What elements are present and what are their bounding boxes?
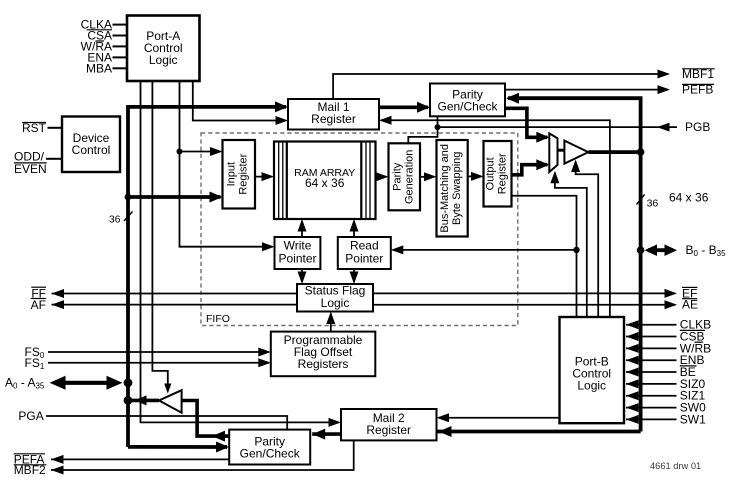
- svg-text:Pointer: Pointer: [278, 251, 316, 265]
- FIFO dashed boundary: [201, 133, 518, 326]
- svg-text:Logic: Logic: [149, 53, 178, 67]
- wire FS0 input: [48, 351, 269, 353]
- wire port-A ctl to mail1 register: [193, 81, 286, 121]
- port-B control logic box: [560, 317, 625, 423]
- wire to read pointer: [393, 249, 577, 251]
- svg-text:36: 36: [109, 214, 121, 226]
- wire mux to buffer: [558, 149, 565, 152]
- device control box: [62, 117, 120, 173]
- wire parity gen/check B to output mux: [505, 108, 547, 137]
- wire PGA input: [46, 416, 287, 430]
- read pointer box: [338, 237, 391, 269]
- wire BE input: [626, 371, 677, 373]
- wire AF output: [52, 304, 298, 306]
- parity generation box: [389, 143, 421, 210]
- output register box: [484, 141, 512, 207]
- wire mux enable from port-B: [555, 173, 587, 317]
- wire MBA stub: [113, 67, 128, 69]
- svg-text:64 x 36: 64 x 36: [305, 176, 345, 190]
- wire SIZ1 input: [626, 395, 677, 397]
- wire parity generation to bus-matching: [420, 176, 435, 178]
- svg-text:Gen/Check: Gen/Check: [240, 447, 301, 461]
- wire EF output: [373, 292, 675, 294]
- wire W/RA stub: [113, 45, 128, 47]
- svg-text:EVEN: EVEN: [14, 162, 47, 176]
- svg-text:Register: Register: [497, 153, 509, 194]
- svg-text:AE: AE: [682, 298, 698, 312]
- svg-text:MBA: MBA: [86, 61, 112, 75]
- wire FF output: [52, 293, 298, 295]
- RAM array inner lines: [278, 142, 280, 220]
- junction B bus / B0-B35: [637, 246, 645, 254]
- svg-text:Gen/Check: Gen/Check: [437, 100, 498, 114]
- wire PEFB output: [505, 89, 668, 91]
- svg-text:Control: Control: [72, 143, 111, 157]
- svg-text:36: 36: [647, 198, 659, 210]
- wire A0 - A35 bidirectional: [55, 381, 117, 385]
- svg-text:Pointer: Pointer: [345, 251, 383, 265]
- status flag logic box: [297, 284, 373, 312]
- junction A bus / input register: [125, 194, 132, 201]
- wire CLKA stub: [113, 24, 128, 26]
- bus-matching byte swapping box: [437, 140, 468, 237]
- input register box: [223, 140, 256, 209]
- svg-text:4661 drw 01: 4661 drw 01: [650, 461, 701, 471]
- bus width slash B side: [637, 195, 645, 205]
- overline CSA: [87, 29, 112, 31]
- wire CSB input: [626, 336, 677, 338]
- wire SIZ0 input: [626, 383, 677, 385]
- svg-text:PGA: PGA: [18, 409, 43, 423]
- bus width slash A side: [124, 212, 133, 222]
- wire port-A ctl to mail2 register: [141, 81, 340, 422]
- port-A control logic box: [127, 16, 200, 82]
- svg-text:Bus-Matching and: Bus-Matching and: [439, 144, 451, 233]
- wire bus-matching to output register: [468, 175, 482, 177]
- junction on write-pointer wire: [177, 149, 183, 155]
- wire B bus to parity gen/check B: [508, 98, 641, 431]
- overline EVEN: [14, 162, 47, 164]
- svg-text:Generation: Generation: [403, 150, 415, 204]
- wire PGB input: [438, 126, 678, 128]
- mail 1 register box: [288, 99, 379, 130]
- wire port-B to mail2: [439, 417, 560, 419]
- wire port-A ctl to write pointer: [180, 81, 273, 247]
- svg-text:AF: AF: [31, 298, 46, 312]
- wire B buffer to B bus: [588, 150, 640, 154]
- svg-text:Byte Swapping: Byte Swapping: [451, 152, 463, 225]
- wire B0 - B35 bidirectional: [648, 248, 673, 252]
- wire output register to port-B / read pointer: [512, 196, 577, 317]
- svg-text:Registers: Registers: [298, 357, 349, 371]
- wire RST stub: [48, 127, 63, 129]
- wire mail1 to MBF1: [333, 74, 668, 99]
- overline R of W/RA: [95, 40, 104, 42]
- B output buffer triangle: [564, 141, 588, 164]
- wire FS1 input: [48, 362, 269, 364]
- svg-text:PGB: PGB: [685, 120, 710, 134]
- svg-text:Register: Register: [311, 112, 356, 126]
- junction B bus / buffer: [637, 148, 645, 156]
- junction PGB / parity: [435, 124, 441, 130]
- wire MBF2 output: [51, 440, 354, 470]
- wire flag offset to status flag: [330, 314, 332, 332]
- wire ENB input: [626, 359, 677, 361]
- junction A bus / output buffer: [124, 396, 133, 405]
- A data bus vertical: [128, 107, 286, 447]
- A output buffer triangle: [159, 390, 182, 413]
- programmable flag offset registers box: [271, 332, 376, 377]
- wire mail2 to parity gen/check A: [312, 432, 341, 436]
- wire buffer enable from port-B: [576, 162, 599, 318]
- svg-text:Logic: Logic: [321, 296, 350, 310]
- wire ENA stub: [113, 56, 128, 58]
- svg-text:SW1: SW1: [680, 412, 706, 426]
- arrow A bus into mail1: [275, 101, 288, 112]
- wire A buffer output to bus: [128, 399, 159, 403]
- wire A bus to input register: [128, 195, 221, 199]
- wire CLKB input: [626, 324, 677, 326]
- wire mail1 to parity gen/check B: [379, 106, 428, 110]
- overline RST: [22, 122, 46, 124]
- wire RAM to parity generation: [376, 176, 387, 178]
- wire ODD/EVEN stub: [46, 158, 62, 160]
- svg-text:Parity: Parity: [391, 162, 403, 191]
- wire read pointer to RAM: [353, 221, 355, 237]
- mail 2 register box: [341, 409, 437, 440]
- write pointer box: [275, 237, 321, 269]
- wire write pointer to status flag: [301, 269, 303, 282]
- wire W/RB input: [626, 347, 677, 349]
- wire write pointer to RAM: [301, 221, 303, 237]
- wire port-B ctl to mail1: [381, 120, 610, 317]
- junction A bus / A0-A35: [124, 378, 133, 387]
- wire SW1 input: [626, 418, 677, 420]
- wire port-A ctl to A-output-buffer enable: [152, 81, 167, 391]
- wire B bus into mail2: [437, 430, 641, 434]
- wire SW0 input: [626, 407, 677, 409]
- wire CSA stub: [113, 35, 128, 37]
- B output mux trapezoid: [549, 133, 557, 172]
- RAM array box: [274, 142, 376, 220]
- junction read-pointer feedback: [573, 247, 579, 253]
- wire branch to input register (control): [180, 151, 221, 153]
- svg-text:Output: Output: [485, 157, 497, 190]
- parity gen/check B box: [430, 84, 505, 117]
- svg-text:Register: Register: [366, 423, 411, 437]
- wire PGB to parity generation: [408, 116, 437, 143]
- wire input register to RAM: [255, 176, 272, 178]
- wire parity gen/check A to A buffer: [182, 401, 230, 437]
- wire PEFA output: [51, 458, 229, 460]
- wire read pointer to status flag: [353, 269, 355, 282]
- svg-text:Logic: Logic: [577, 379, 606, 393]
- wire AE output: [373, 304, 675, 306]
- parity gen/check A box: [229, 430, 310, 465]
- svg-text:FIFO: FIFO: [206, 313, 230, 325]
- svg-text:Input: Input: [226, 162, 238, 186]
- wire output register to mux: [512, 165, 548, 175]
- svg-text:Register: Register: [238, 153, 250, 194]
- svg-text:64 x 36: 64 x 36: [669, 191, 709, 205]
- wire A bus to parity gen/check A: [128, 445, 227, 449]
